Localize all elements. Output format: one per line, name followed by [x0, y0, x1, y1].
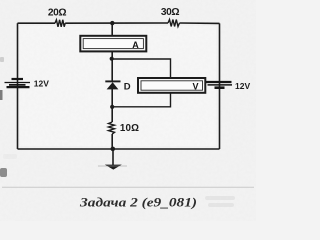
wire bottom — [18, 148, 220, 150]
wire top-right segment — [180, 22, 220, 24]
wire ammeter to node B — [111, 51, 113, 59]
svg-text:30Ω: 30Ω — [161, 7, 180, 18]
node top junction — [110, 21, 114, 25]
wire branch node B to voltmeter top — [112, 59, 171, 78]
wire top-middle segment — [65, 22, 168, 24]
wire diode to node C — [111, 89, 113, 107]
diode D — [105, 81, 131, 92]
svg-text:12V: 12V — [34, 79, 49, 89]
node B junction — [110, 57, 114, 61]
svg-text:V: V — [193, 82, 199, 92]
node bottom junction — [111, 147, 116, 152]
resistor R1 — [48, 8, 67, 27]
node C junction — [110, 105, 114, 109]
wire node C to resistor R3 — [111, 107, 113, 122]
wire top-left segment — [18, 22, 56, 24]
voltmeter U2 — [138, 78, 205, 93]
wire node B to diode — [111, 59, 113, 81]
separator line — [2, 186, 254, 188]
wire R3 to bottom — [111, 134, 113, 149]
svg-text:A: A — [132, 40, 139, 50]
ammeter U1 — [80, 36, 146, 52]
wire center top to ammeter — [111, 23, 113, 36]
wire right side — [219, 23, 221, 149]
ground — [98, 149, 127, 170]
battery B1 12V — [5, 79, 50, 89]
svg-text:20Ω: 20Ω — [48, 8, 67, 19]
svg-text:D: D — [124, 81, 131, 92]
wire voltmeter bottom to node C — [112, 93, 170, 107]
svg-text:Задача 2 (е9_081): Задача 2 (е9_081) — [79, 195, 197, 210]
battery B2 12V — [206, 81, 250, 91]
svg-text:10Ω: 10Ω — [120, 123, 139, 134]
svg-text:12V: 12V — [235, 81, 250, 91]
wire left side — [17, 23, 19, 149]
resistor R3 — [109, 122, 140, 134]
resistor R2 — [161, 7, 180, 26]
